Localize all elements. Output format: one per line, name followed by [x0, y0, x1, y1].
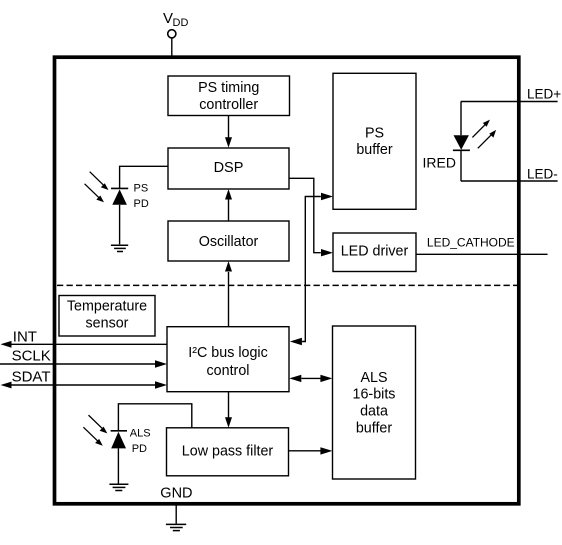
LED driver box	[333, 233, 416, 272]
svg-text:LED driver: LED driver	[341, 244, 409, 260]
svg-text:buffer: buffer	[356, 142, 393, 158]
light arrows into PS PD	[85, 172, 109, 203]
wire I2C to Low pass filter	[228, 392, 230, 418]
PS timing controller box	[168, 76, 290, 116]
VDD label	[163, 10, 188, 29]
svg-text:buffer: buffer	[356, 421, 393, 437]
svg-text:V: V	[163, 10, 173, 27]
svg-text:controller: controller	[199, 97, 258, 113]
photodiode ALS PD	[111, 431, 127, 484]
wire PS PD to DSP	[120, 166, 168, 188]
svg-text:DSP: DSP	[214, 160, 244, 176]
svg-text:SDAT: SDAT	[12, 369, 51, 386]
wire SCLK	[0, 363, 156, 365]
wire Low pass filter to ALS buffer	[289, 450, 321, 452]
svg-text:INT: INT	[13, 328, 37, 345]
svg-text:LED_CATHODE: LED_CATHODE	[427, 235, 515, 249]
wire I2C to Oscillator	[228, 272, 230, 327]
svg-text:control: control	[207, 363, 250, 379]
svg-text:data: data	[360, 404, 388, 420]
svg-text:DD: DD	[173, 17, 189, 29]
svg-text:GND: GND	[160, 485, 192, 501]
wire PS timing to DSP	[228, 116, 230, 139]
svg-text:LED-: LED-	[527, 166, 558, 181]
svg-text:I²C bus logic: I²C bus logic	[188, 345, 267, 361]
svg-text:IRED: IRED	[423, 154, 456, 170]
svg-text:Temperature: Temperature	[67, 298, 147, 314]
svg-text:SCLK: SCLK	[12, 348, 51, 365]
chip outline	[55, 57, 519, 504]
wire LED-	[461, 180, 558, 182]
IRED diode branch	[453, 102, 470, 182]
svg-text:PS: PS	[365, 125, 384, 141]
svg-text:PS timing: PS timing	[198, 80, 259, 96]
Oscillator box	[168, 221, 289, 261]
svg-text:16-bits: 16-bits	[353, 387, 396, 403]
svg-text:LED+: LED+	[527, 87, 561, 102]
wire ALS PD to Low pass filter	[118, 404, 191, 431]
wire LED+	[461, 101, 558, 103]
wire node to PS buffer and I2C (wire B)	[302, 197, 321, 342]
svg-text:ALS: ALS	[130, 427, 151, 439]
ground PS PD	[111, 245, 128, 251]
wire SDAT	[11, 384, 156, 386]
ground GND	[166, 524, 186, 530]
svg-text:PS: PS	[134, 183, 149, 195]
ALS 16-bits data buffer box	[333, 326, 416, 479]
dashed divider line	[57, 284, 517, 286]
PS PD label	[134, 183, 149, 210]
wire VDD to chip	[171, 38, 173, 58]
ALS PD label	[130, 427, 151, 455]
PS buffer box	[333, 73, 416, 209]
Temperature sensor box	[59, 296, 155, 337]
wire INT	[11, 343, 167, 345]
VDD terminal circle	[168, 30, 176, 38]
ground ALS PD	[109, 484, 128, 490]
svg-text:PD: PD	[134, 198, 149, 210]
wire DSP to LED driver	[289, 178, 321, 252]
svg-text:ALS: ALS	[360, 370, 387, 386]
svg-text:Low pass filter: Low pass filter	[182, 443, 274, 459]
svg-text:PD: PD	[132, 443, 147, 455]
I2C bus logic control box	[167, 327, 289, 392]
svg-text:sensor: sensor	[86, 315, 129, 331]
photodiode PS PD	[111, 188, 128, 244]
wire I2C to ALS buffer (bidirectional)	[302, 377, 321, 379]
light arrows into ALS PD	[83, 415, 107, 446]
svg-text:Oscillator: Oscillator	[199, 234, 259, 250]
wire GND	[175, 506, 177, 524]
Low pass filter box	[167, 428, 289, 476]
wire LED_CATHODE	[416, 253, 548, 255]
light arrows out of IRED	[472, 120, 496, 149]
DSP box	[168, 148, 289, 189]
wire Oscillator to DSP	[228, 199, 230, 221]
